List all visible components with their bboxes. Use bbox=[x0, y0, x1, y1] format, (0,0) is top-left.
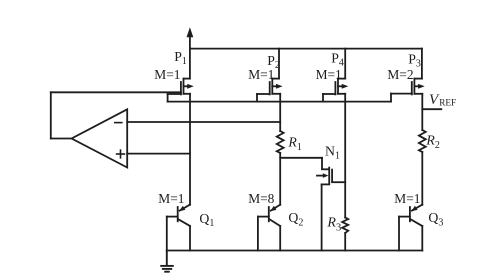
resistor R2 bbox=[419, 130, 426, 152]
label R2 bbox=[425, 133, 439, 151]
svg-text:M=1: M=1 bbox=[316, 67, 342, 82]
label R1 bbox=[287, 134, 301, 152]
wire R1 node to N1 gate bbox=[280, 158, 328, 170]
svg-text:Q1: Q1 bbox=[199, 211, 214, 229]
wire P3 drain to R2 bbox=[421, 94, 423, 130]
node VREF output stub bbox=[422, 108, 441, 110]
svg-text:R2: R2 bbox=[425, 133, 439, 151]
supply arrow VDD bbox=[187, 27, 194, 48]
label M=1 (P1) bbox=[154, 67, 180, 82]
transistor Q2 bbox=[258, 205, 280, 251]
svg-text:P4: P4 bbox=[331, 50, 344, 68]
label P2 bbox=[267, 53, 280, 71]
svg-text:Q2: Q2 bbox=[288, 210, 303, 228]
wire op-amp output to P1 gate bbox=[51, 92, 181, 138]
ground bbox=[161, 251, 173, 272]
svg-text:REF: REF bbox=[439, 98, 456, 108]
label Q1 bbox=[199, 211, 214, 229]
wire P1 drain column bbox=[189, 94, 191, 205]
label M=1 (Q1) bbox=[158, 191, 184, 206]
transistor P3 bbox=[412, 49, 425, 95]
label R3 bbox=[326, 215, 341, 233]
svg-text:M=1: M=1 bbox=[248, 67, 274, 82]
label Q2 bbox=[288, 210, 303, 228]
wire N1 source to ground rail bbox=[322, 184, 330, 250]
resistor R1 bbox=[277, 131, 284, 153]
svg-text:M=1: M=1 bbox=[158, 191, 184, 206]
svg-text:R1: R1 bbox=[287, 134, 301, 152]
transistor P1 bbox=[181, 49, 194, 95]
label M=8 (Q2) bbox=[248, 191, 274, 206]
label N1 bbox=[325, 143, 340, 161]
label VREF bbox=[429, 92, 440, 108]
wire gate rail connecting PMOS gates bbox=[168, 94, 412, 102]
svg-text:N1: N1 bbox=[325, 143, 340, 161]
svg-text:M=1: M=1 bbox=[154, 67, 180, 82]
label M=1 (P2) bbox=[248, 67, 274, 82]
svg-text:R3: R3 bbox=[326, 215, 341, 233]
transistor Q3 bbox=[399, 205, 422, 251]
wire P2 drain column to R1 bbox=[279, 94, 281, 131]
resistor R3 bbox=[342, 218, 348, 234]
label M=1 (P4) bbox=[316, 67, 342, 82]
transistor P4 bbox=[335, 49, 348, 95]
wire top supply rail bbox=[190, 48, 422, 50]
svg-text:P1: P1 bbox=[174, 49, 187, 67]
transistor P2 bbox=[270, 49, 283, 95]
wire R2 bottom to Q3 emitter bbox=[421, 152, 423, 205]
transistor N1 bbox=[317, 168, 332, 184]
wire inverting input to R1 node bbox=[127, 121, 280, 123]
label Q3 bbox=[428, 210, 443, 228]
wire non-inverting input to Q1 node bbox=[127, 153, 190, 155]
wire bottom ground rail bbox=[167, 250, 422, 252]
label P4 bbox=[331, 50, 344, 68]
svg-text:M=2: M=2 bbox=[387, 67, 413, 82]
wire P4 drain column bbox=[344, 94, 346, 218]
svg-text:M=8: M=8 bbox=[248, 191, 274, 206]
svg-text:M=1: M=1 bbox=[394, 191, 420, 206]
label M=2 (P3) bbox=[387, 67, 413, 82]
label P1 bbox=[174, 49, 187, 67]
op-amp U1 bbox=[72, 109, 128, 167]
wire R1 bottom node to Q2 emitter bbox=[279, 153, 281, 205]
label M=1 (Q3) bbox=[394, 191, 420, 206]
label P3 bbox=[408, 51, 421, 69]
svg-text:Q3: Q3 bbox=[428, 210, 443, 228]
wire R3 bottom to ground rail bbox=[344, 233, 346, 251]
wire N1 drain to P4 column bbox=[332, 181, 345, 183]
transistor Q1 bbox=[167, 205, 190, 251]
